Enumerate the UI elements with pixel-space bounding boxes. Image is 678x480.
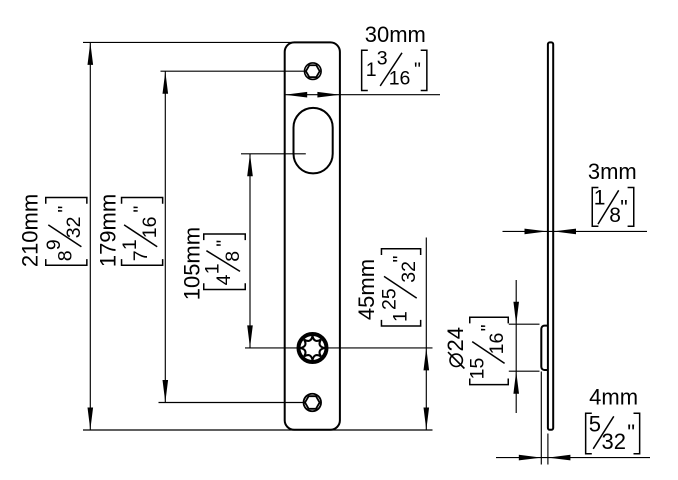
svg-text:4: 4 [213, 274, 235, 285]
svg-text:24: 24 [443, 327, 468, 351]
b179 left bracket [122, 259, 163, 265]
dimension line dia 24 [515, 280, 517, 413]
svg-text:4mm: 4mm [589, 385, 638, 410]
svg-text:": " [627, 420, 635, 445]
b4 right bracket [634, 413, 640, 454]
label dia 24 [443, 327, 468, 368]
svg-text:9: 9 [43, 239, 65, 250]
b210 fraction slash [48, 225, 81, 247]
top screw hole hex socket [306, 65, 320, 77]
svg-text:16: 16 [486, 333, 508, 355]
dimension line 3mm [503, 230, 648, 232]
b30 right bracket [421, 50, 427, 90]
dimension line 30mm [285, 94, 440, 96]
extension line top hole center [161, 70, 306, 72]
svg-text:8: 8 [222, 251, 244, 262]
extension line bottom hole center [159, 402, 305, 404]
plate front outline [285, 42, 340, 429]
svg-text:1: 1 [119, 239, 141, 250]
b45 fraction slash [384, 276, 417, 298]
torx screw star recess [301, 336, 325, 360]
svg-text:16: 16 [389, 68, 411, 90]
extension line screw bottom (side) [509, 370, 540, 372]
handle spindle slot [294, 108, 333, 173]
extension line bump edge (4mm) [540, 372, 542, 465]
dimension line 105mm [249, 154, 251, 348]
svg-text:": " [213, 240, 235, 247]
svg-text:5: 5 [589, 412, 601, 437]
label bracket 1 25/32 inch [378, 249, 420, 326]
top screw hole circle [305, 63, 322, 80]
svg-text:": " [620, 197, 627, 220]
b179 fraction slash [124, 225, 157, 247]
svg-text:": " [390, 255, 412, 262]
svg-text:1: 1 [366, 59, 377, 81]
b24 fraction slash [472, 342, 504, 364]
label bracket 7 1/16 inch [119, 198, 163, 266]
svg-text:1: 1 [202, 263, 224, 274]
dimension line 4mm [496, 457, 650, 459]
svg-text:3: 3 [377, 48, 388, 70]
label bracket 5/32 inch [586, 412, 640, 454]
b105 right bracket [204, 234, 246, 240]
svg-text:32: 32 [63, 216, 85, 238]
svg-text:179mm: 179mm [95, 194, 120, 267]
b4 left bracket [586, 413, 592, 454]
torx screw head protrusion (side) [541, 326, 548, 370]
svg-text:16: 16 [139, 216, 161, 238]
svg-text:25: 25 [378, 288, 400, 310]
svg-text:210mm: 210mm [18, 194, 43, 267]
label bracket 15/16 inch [467, 317, 509, 384]
b3 fraction slash [598, 190, 619, 224]
bottom screw hole hex socket [305, 396, 320, 409]
svg-text:32: 32 [602, 429, 626, 454]
b105 fraction slash [206, 251, 240, 272]
b24 left bracket [470, 379, 509, 385]
b30 left bracket [362, 50, 368, 90]
svg-text:1: 1 [594, 187, 606, 210]
torx screw outer ring [299, 334, 327, 362]
b4 fraction slash [593, 416, 614, 449]
b45 right bracket [381, 249, 420, 255]
svg-text:45mm: 45mm [354, 259, 379, 320]
bottom screw hole circle [304, 394, 322, 412]
label bracket 4 1/8 inch [202, 234, 246, 290]
svg-text:7: 7 [130, 250, 152, 261]
label bracket 8 9/32 inch [43, 198, 87, 266]
b30 fraction slash [380, 53, 402, 86]
svg-text:15: 15 [467, 358, 489, 380]
b179 right bracket [122, 198, 163, 204]
extension line plate face (4mm) [547, 434, 549, 465]
b24 right bracket [470, 317, 509, 323]
b105 left bracket [204, 283, 246, 289]
b210 left bracket [46, 259, 87, 265]
bottom extension line [83, 429, 433, 431]
top extension line [83, 41, 294, 43]
extension line slot lower center [241, 153, 306, 155]
svg-text:1: 1 [390, 311, 412, 322]
extension line screw top (side) [509, 323, 540, 325]
svg-text:32: 32 [398, 261, 420, 283]
svg-text:30mm: 30mm [365, 22, 426, 47]
dimension line 210mm [89, 42, 91, 430]
svg-text:3mm: 3mm [588, 159, 637, 184]
dimension line 179mm [164, 71, 166, 402]
b3 left bracket [592, 188, 598, 227]
svg-text:8: 8 [609, 204, 621, 227]
b45 left bracket [381, 320, 420, 326]
dimension line 45mm [425, 238, 427, 431]
svg-text:": " [477, 324, 499, 331]
label bracket 1 3/16 inch [362, 48, 427, 91]
svg-text:8: 8 [54, 250, 76, 261]
b210 right bracket [46, 198, 87, 204]
label bracket 1/8 inch [592, 187, 634, 227]
b3 right bracket [628, 188, 634, 227]
svg-text:": " [130, 206, 152, 213]
svg-text:": " [414, 59, 421, 81]
svg-text:": " [54, 206, 76, 213]
plate side view [548, 42, 553, 429]
extension line torx center [245, 347, 433, 349]
